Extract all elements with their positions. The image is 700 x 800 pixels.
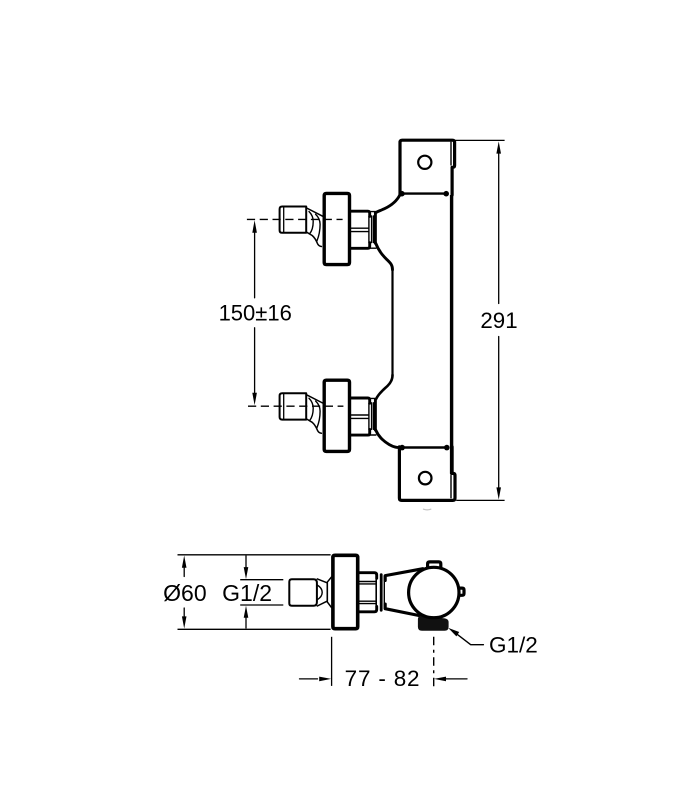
nut flat line 1 (bottom) bbox=[351, 414, 368, 416]
dimension Ø60 arrow down bbox=[182, 616, 187, 628]
collar top edge bbox=[370, 211, 376, 213]
top plate screw hole bbox=[418, 156, 431, 169]
dimension Ø60 arrow up bbox=[182, 556, 187, 568]
faint mark under bottom plate bbox=[424, 508, 431, 511]
body circle bbox=[409, 567, 459, 617]
cone inner curve right bbox=[316, 214, 321, 241]
dimension 291 line upper segment bbox=[498, 152, 500, 304]
nut right edge mid (bottom) bbox=[368, 403, 370, 429]
leader arrow at outlet bbox=[448, 628, 459, 637]
nut flat line 2 bbox=[351, 231, 368, 233]
svg-text:77 - 82: 77 - 82 bbox=[345, 666, 421, 691]
dimension 291 line lower segment bbox=[498, 337, 500, 490]
dimension 77-82 left tail bbox=[300, 678, 318, 680]
column right edge bbox=[450, 168, 453, 474]
plan nut flat line 1b bbox=[359, 583, 376, 585]
dimension 291 arrow up bbox=[496, 141, 501, 153]
dimension G1/2 upper shaft bbox=[245, 556, 247, 568]
plan cone top bbox=[317, 577, 331, 583]
plan cone bottom bbox=[317, 601, 331, 607]
top plate bottom edge bbox=[400, 192, 447, 194]
cone bottom edge bbox=[307, 232, 322, 246]
cone inner curve right (bottom) bbox=[316, 401, 321, 428]
nut bottom bbox=[350, 243, 370, 249]
plan nut right edge mid bbox=[375, 579, 377, 607]
top plate inner edge bbox=[450, 142, 452, 165]
plan nut bottom bbox=[359, 607, 377, 612]
dimension G1/2 lower shaft bbox=[245, 617, 247, 628]
side tab bbox=[458, 588, 465, 595]
top mounting plate bbox=[400, 140, 455, 195]
svg-text:G1/2: G1/2 bbox=[489, 633, 538, 658]
extension line Ø60 top bbox=[178, 554, 331, 556]
extension line bottom (for 291) bbox=[456, 499, 504, 501]
dimension 150±16 arrow up bbox=[252, 220, 257, 233]
nut top bbox=[350, 211, 370, 216]
collar top edge (bottom) bbox=[370, 397, 376, 399]
supply stub (bottom) bbox=[280, 393, 307, 419]
centerline top inlet (dashed) bbox=[247, 218, 343, 220]
collar line 1 (bottom) bbox=[371, 403, 373, 430]
dimension 150±16 line lower segment bbox=[254, 328, 256, 394]
svg-text:291: 291 bbox=[480, 308, 517, 333]
body bell lower (bottom valve to bottom plate) bbox=[376, 430, 402, 448]
body bell upper (plate to top valve) bbox=[376, 195, 400, 213]
nut bottom (bottom) bbox=[350, 430, 370, 436]
plan collar thin edge bbox=[383, 576, 385, 609]
collar line 2 (bottom) bbox=[373, 403, 375, 430]
plan supply stub bbox=[289, 579, 317, 605]
bottom mounting plate bbox=[399, 447, 455, 501]
nut right edge mid bbox=[368, 217, 370, 243]
dimension Ø60 lower shaft bbox=[183, 608, 185, 619]
bottom valve assembly (translated copy) bbox=[280, 380, 376, 451]
plan cone waist bbox=[326, 583, 328, 602]
dimension G1/2 arrow down to top line bbox=[244, 567, 249, 579]
junction dot bottom-left bbox=[399, 445, 405, 451]
supply stub inner edge bbox=[283, 207, 285, 232]
collar bottom edge (bottom) bbox=[370, 434, 376, 436]
plan nut top bbox=[359, 573, 377, 579]
bottom plate inner edge bbox=[450, 476, 452, 498]
bottom plate screw hole bbox=[419, 472, 432, 485]
plan body cone bottom bbox=[385, 604, 419, 616]
extension line top (for 291) bbox=[455, 139, 504, 141]
outlet connector (black band) bbox=[418, 616, 449, 631]
escutcheon plate (bottom) bbox=[324, 380, 349, 451]
body front edge (bottom) bbox=[374, 399, 377, 430]
nut top (bottom) bbox=[350, 398, 370, 403]
plan escutcheon plate bbox=[333, 555, 358, 628]
supply stub bbox=[280, 207, 307, 233]
body front edge bbox=[374, 213, 377, 244]
cone inner curve left bbox=[309, 212, 313, 234]
extension line 77-82 bbox=[331, 637, 333, 686]
dimension 77-82 left arrow bbox=[319, 677, 331, 682]
extension line G1/2 top bbox=[240, 579, 283, 581]
svg-text:G1/2: G1/2 bbox=[222, 580, 272, 606]
collar line 2 bbox=[373, 216, 375, 243]
escutcheon plate bbox=[324, 193, 349, 264]
svg-text:150±16: 150±16 bbox=[219, 301, 292, 326]
centerline bottom inlet (dashed) bbox=[248, 405, 343, 407]
cone top edge bbox=[307, 208, 323, 216]
plan centerline (dashed) bbox=[433, 637, 435, 686]
junction dot bottom-right bbox=[444, 445, 450, 451]
dimension 150±16 arrow down bbox=[252, 393, 257, 406]
body bell lower (top valve to column) bbox=[376, 243, 393, 270]
bottom plate top edge bbox=[401, 446, 448, 448]
dimension Ø60 upper shaft bbox=[183, 566, 185, 577]
plan collar thick edge bbox=[380, 575, 383, 611]
top valve assembly bbox=[280, 193, 376, 264]
dimension 291 arrow down bbox=[496, 487, 501, 499]
plan nut flat line 2b bbox=[359, 603, 376, 605]
column left edge bbox=[391, 270, 393, 376]
extension line Ø60 bottom bbox=[178, 628, 331, 630]
supply stub inner edge (bottom) bbox=[283, 394, 285, 419]
collar line 1 bbox=[371, 216, 373, 243]
dimension G1/2 arrow up to bottom line bbox=[244, 606, 249, 618]
cone bottom edge (bottom) bbox=[307, 419, 322, 433]
extension line G1/2 bottom bbox=[240, 604, 283, 606]
junction dot top-left bbox=[399, 191, 405, 197]
leader line bbox=[457, 634, 484, 645]
cone inner curve left (bottom) bbox=[309, 398, 313, 420]
plan stub dome bbox=[317, 585, 322, 600]
junction dot top-right bbox=[443, 191, 449, 197]
thermostat stop tab bbox=[428, 562, 441, 571]
dimension 77-82 right arrow bbox=[434, 677, 446, 682]
collar bottom edge bbox=[370, 247, 376, 249]
plan body cone top bbox=[385, 569, 423, 581]
nut flat line 1 bbox=[351, 227, 368, 229]
body bell upper (column to bottom valve) bbox=[376, 375, 392, 399]
cone top edge (bottom) bbox=[307, 395, 323, 403]
dimension 77-82 right tail bbox=[446, 678, 467, 680]
nut flat line 2 (bottom) bbox=[351, 417, 368, 419]
svg-text:Ø60: Ø60 bbox=[163, 580, 206, 606]
dimension 150±16 line upper segment bbox=[254, 232, 256, 298]
plan nut flat line 1 bbox=[359, 581, 376, 583]
plan nut flat line 2 bbox=[359, 600, 376, 602]
